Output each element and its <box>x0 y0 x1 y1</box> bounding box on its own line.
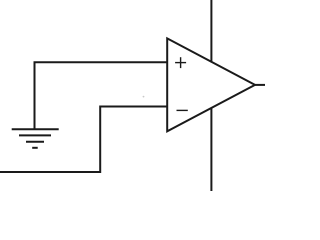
op-amp U1 <box>167 38 255 131</box>
wire to non-inverting input <box>35 62 168 129</box>
op-amp U1 minus input label <box>177 109 188 111</box>
negative supply wire <box>210 108 212 192</box>
positive supply wire <box>210 0 212 63</box>
op-amp U1 plus input label <box>175 57 186 68</box>
output wire <box>254 84 265 86</box>
wire to inverting input <box>0 107 167 173</box>
ground <box>12 129 59 148</box>
stray dot <box>143 96 145 98</box>
